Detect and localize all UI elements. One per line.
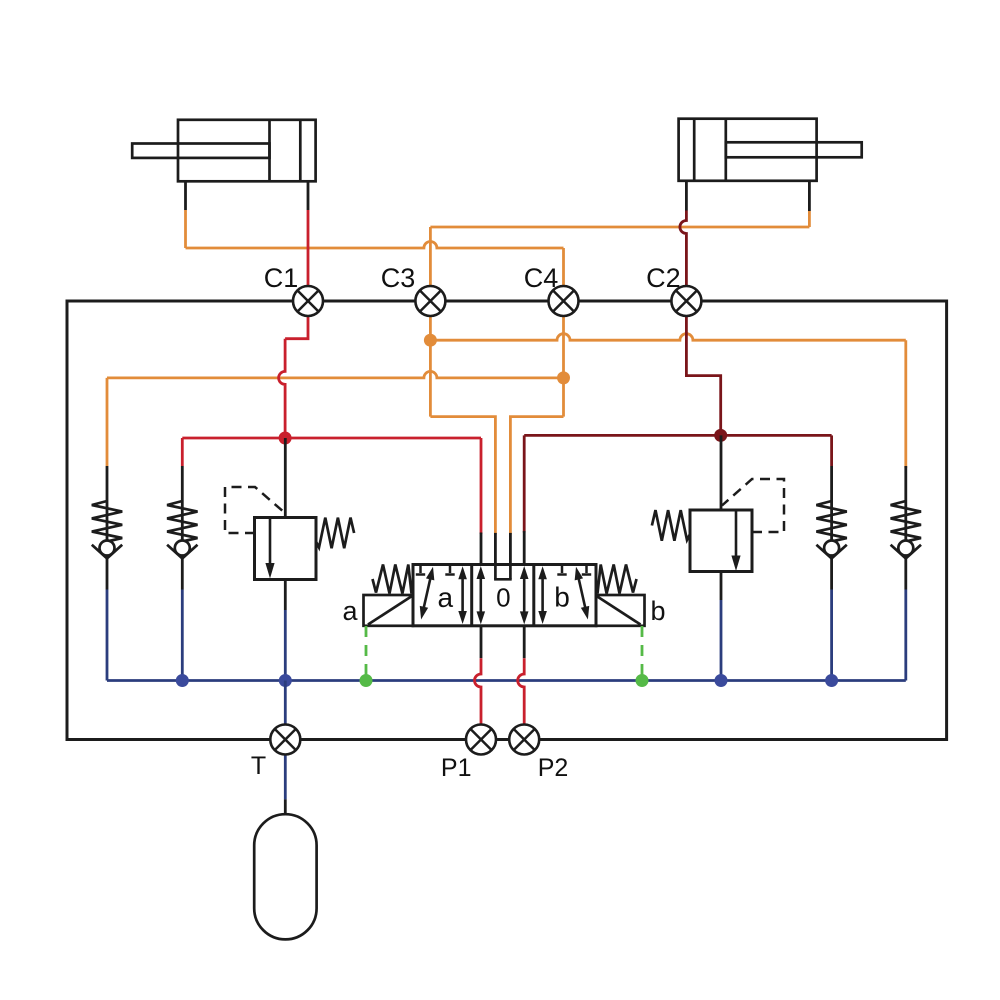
svg-text:C3: C3	[381, 263, 416, 293]
accumulator/tank vessel	[254, 814, 316, 939]
wire: pilot drain b to bus (green dashed)	[641, 626, 644, 676]
wire: valve feed black tail (right-center)	[509, 533, 512, 565]
wire: C3 below to junction and valve branch (orange)	[429, 316, 432, 417]
wire: maroon manifold rail	[524, 434, 831, 437]
pilot-operated relief valve RV2 (right)	[690, 510, 752, 572]
wire: C3 riser to horizontal (orange)	[429, 227, 432, 286]
svg-text:a: a	[438, 582, 454, 613]
check valve CV3	[830, 466, 833, 541]
wire: CV4 outlet to bus (blue)	[904, 590, 907, 681]
wire: bus to port T (blue)	[284, 681, 287, 726]
svg-text:a: a	[342, 596, 358, 626]
DV1 left pilot box	[364, 595, 414, 626]
svg-text:P2: P2	[538, 754, 569, 782]
directional control valve DV1 body	[413, 565, 596, 626]
wire: CYL2 rod port drop (orange)	[808, 211, 811, 227]
wire: red manifold rail	[182, 437, 481, 440]
wire: horizontal C3 to CYL2 rod port (orange)	[430, 226, 809, 229]
svg-text:b: b	[650, 596, 665, 626]
DV1 position-a symbols (blocked ports, arrows)	[419, 565, 422, 574]
node: junction below C4 (orange)	[557, 371, 570, 384]
wire: CV1 outlet to bus (blue)	[106, 590, 109, 681]
port T	[270, 725, 300, 755]
wire: CYL1 rod port to C1 (red)	[307, 210, 310, 286]
wire: valve feed black tail (left-center)	[494, 533, 497, 565]
wire: CYL1 cap-end port stub (black)	[184, 181, 187, 210]
wire: CYL1 rod-end port stub (black)	[307, 181, 310, 210]
wire: valve feed black tail (P-left)	[480, 533, 483, 565]
svg-text:b: b	[554, 582, 570, 613]
wire: rail drop to valve top port P-right (maroon)	[523, 435, 526, 532]
DV1 position-0 symbols (closed center pocket, through arrows)	[494, 565, 497, 580]
wire: horizontal junction C3 to right side, hops over C4 and C2 lines (orange)	[430, 334, 905, 340]
svg-text:C4: C4	[524, 263, 559, 293]
wire: P2 feed hops over bus (red)	[518, 658, 525, 724]
wire: T to tank (blue)	[284, 755, 287, 800]
wire: DV1 bottom port to P2 black tail	[523, 626, 526, 658]
check valve CV4	[904, 466, 907, 541]
node: green junction b	[636, 674, 649, 687]
node: junction below C3 (orange)	[424, 334, 437, 347]
node: bus junction at CV3	[825, 674, 838, 687]
node: green junction a	[360, 674, 373, 687]
wire: left side drop to check valve CV1 (orange)	[106, 378, 109, 466]
wire: DV1 bottom port to P1 black tail	[480, 626, 483, 658]
check valve CV2	[181, 466, 184, 541]
port C2	[671, 286, 701, 316]
node: maroon junction above relief valve RV2	[714, 429, 727, 442]
node: bus junction at CV2	[176, 674, 189, 687]
wire: RV1 outlet black	[284, 580, 287, 611]
wire: valve feed black tail (P-right)	[523, 531, 526, 564]
port C1	[293, 286, 323, 316]
wire: RV2 feed from junction (black)	[720, 435, 723, 510]
port C3	[415, 286, 445, 316]
port C4	[549, 286, 579, 316]
hydraulic cylinder CYL2 (right, rod extends right)	[679, 119, 817, 181]
wire: RV2 outlet black	[720, 572, 723, 601]
wire: rail drop to check valve CV3 (maroon)	[830, 435, 833, 466]
wire: CV2 outlet to bus (blue)	[181, 590, 184, 681]
wire: RV2 outlet to tank bus (blue)	[720, 600, 723, 681]
DV1 left spring	[373, 565, 412, 594]
svg-text:0: 0	[496, 583, 510, 613]
wire: branch to valve top port right-center (orange)	[510, 417, 563, 535]
node: bus junction at RV2	[715, 674, 728, 687]
wire: C4 below to junction and valve branch (orange)	[562, 316, 565, 417]
DV1 right pilot box	[596, 595, 645, 626]
check valve CV1	[106, 466, 109, 541]
wire: RV1 feed from junction (black)	[284, 438, 287, 518]
wire: rail drop to valve top port P-left (red)	[480, 438, 483, 534]
wire: branch to valve top port left-center (orange)	[430, 417, 495, 535]
manifold block outline	[67, 301, 947, 740]
svg-text:C2: C2	[646, 263, 681, 293]
wire: CV3 outlet to bus (blue)	[830, 590, 833, 681]
wire: right side drop to check valve CV4 (orange)	[904, 340, 907, 468]
wire: CYL1 cap port drop (orange)	[184, 210, 187, 248]
wire: C2 down jog (maroon)	[686, 316, 720, 435]
svg-text:P1: P1	[441, 754, 472, 782]
wire: tank inlet black tail	[284, 799, 287, 815]
wire: C4 riser (orange)	[562, 248, 565, 286]
wire: horizontal junction C4 to left side, hops over C3 drop (orange)	[107, 371, 564, 378]
svg-text:T: T	[251, 752, 266, 780]
wire: CYL2 rod-end port stub (black)	[808, 181, 811, 211]
wire: P1 feed hops over bus (red)	[475, 658, 482, 724]
DV1 right spring	[598, 565, 637, 594]
port P1	[466, 725, 496, 755]
wire: rail drop to check valve CV2 (red)	[181, 438, 184, 466]
svg-text:C1: C1	[264, 263, 299, 293]
pilot-operated relief valve RV1 (left)	[255, 518, 317, 580]
wire: C1 drop to red junction, hops over orange (red)	[279, 339, 285, 438]
wire: CYL2 cap-end port stub (black)	[685, 181, 688, 211]
wire: horizontal CYL1 cap to C4, hops over C3 riser (orange)	[186, 242, 564, 249]
wire: tank return bus (blue)	[107, 679, 906, 682]
wire: pilot drain a to bus (green dashed)	[365, 626, 368, 676]
node: red junction above relief valve RV1	[279, 432, 292, 445]
port P2	[509, 725, 539, 755]
hydraulic cylinder CYL1 (left, rod extends left)	[178, 120, 316, 182]
wire: CYL2 cap port to C2, hops over orange (maroon)	[680, 211, 687, 287]
node: bus junction at RV1/T	[279, 674, 292, 687]
wire: RV1 outlet to tank bus (blue)	[284, 610, 287, 681]
wire: C1 down jog (red)	[285, 316, 308, 339]
DV1 position-b symbols (blocked ports, arrows)	[561, 565, 564, 574]
